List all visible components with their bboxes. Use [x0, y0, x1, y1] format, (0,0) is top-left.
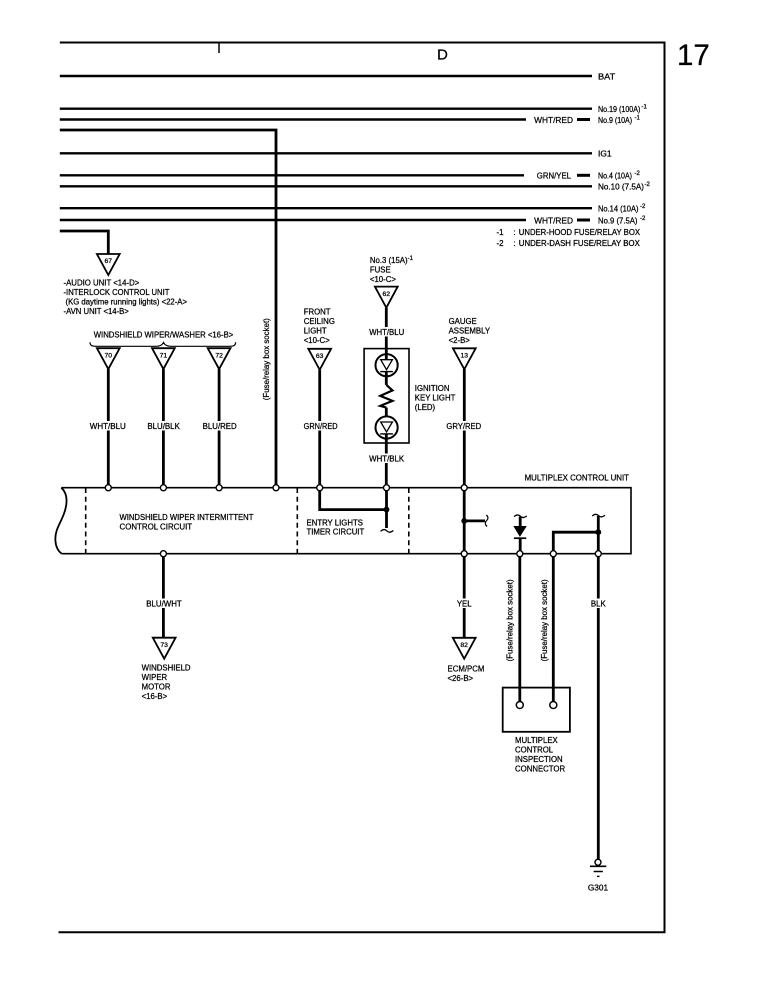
svg-text:62: 62: [383, 291, 391, 298]
svg-text:<16-B>: <16-B>: [142, 692, 168, 701]
svg-text:13: 13: [461, 353, 469, 360]
wire inspection 2 inside: [552, 688, 555, 702]
terminal socket top: [273, 485, 279, 491]
label GRY/RED: [444, 421, 484, 431]
continuation tilde diode feed: [514, 515, 527, 518]
continuation tilde BLK feed: [592, 514, 605, 517]
svg-text:CONNECTOR: CONNECTOR: [515, 765, 565, 774]
svg-text:<10-C>: <10-C>: [370, 275, 396, 284]
wire stub to continuation: [464, 520, 485, 523]
svg-text:(KG daytime running lights) <2: (KG daytime running lights) <22-A>: [66, 298, 188, 307]
svg-text:63: 63: [316, 353, 324, 360]
junction BLK elbow: [595, 529, 601, 535]
label GRN/RED: [301, 421, 340, 431]
svg-text:No.4 (10A): No.4 (10A): [598, 172, 632, 181]
svg-text:WHT/BLU: WHT/BLU: [369, 328, 404, 337]
terminal 71 top: [160, 485, 166, 491]
svg-text:No.19 (100A): No.19 (100A): [598, 105, 641, 114]
svg-text:FUSE: FUSE: [370, 265, 391, 274]
terminal wiper motor bottom: [160, 551, 166, 557]
svg-text:<26-B>: <26-B>: [448, 674, 474, 683]
diode D3: [514, 527, 526, 536]
svg-text:71: 71: [160, 352, 168, 359]
wire stub No.9 (7.5A): [577, 219, 590, 222]
connector 70: [97, 348, 120, 369]
wire fuse/relay box socket feed: [60, 130, 276, 487]
label WHT/BLU: [88, 421, 128, 431]
dashed partition 1: [85, 488, 87, 554]
wire to connector 67: [60, 231, 109, 254]
svg-text:BLU/WHT: BLU/WHT: [146, 599, 182, 608]
svg-text:ECM/PCM: ECM/PCM: [448, 665, 485, 674]
svg-text:BLU/RED: BLU/RED: [203, 422, 237, 431]
wire diode feed: [519, 517, 522, 528]
wire BLU/WHT: [162, 557, 165, 638]
svg-text:<10-C>: <10-C>: [304, 336, 330, 345]
LED D1: [376, 354, 398, 376]
wire No.10 bus: [60, 185, 592, 187]
svg-text:No.9 (7.5A): No.9 (7.5A): [598, 216, 638, 225]
svg-text:(Fuse/relay box socket): (Fuse/relay box socket): [262, 318, 271, 400]
svg-text:No.14 (10A): No.14 (10A): [598, 205, 639, 214]
svg-text:MOTOR: MOTOR: [142, 682, 171, 691]
label WHT/BLU: [366, 327, 407, 337]
svg-text:GRY/RED: GRY/RED: [446, 422, 481, 431]
svg-text:INSPECTION: INSPECTION: [515, 755, 563, 764]
wire No.19 bus: [60, 107, 592, 109]
brace over connectors 70 71 72: [90, 342, 236, 346]
svg-text:GRN/RED: GRN/RED: [304, 422, 338, 431]
svg-text:WHT/BLU: WHT/BLU: [90, 422, 126, 431]
box multiplex control inspection connector: [503, 688, 570, 732]
svg-text:GAUGE: GAUGE: [449, 317, 477, 326]
junction GRY/RED stub: [461, 518, 467, 524]
svg-text:-2: -2: [635, 171, 641, 177]
svg-text:82: 82: [460, 642, 468, 649]
svg-text:No.3 (15A)-1: No.3 (15A)-1: [370, 256, 414, 265]
label WHT/BLK: [366, 454, 407, 464]
svg-text:BLU/BLK: BLU/BLK: [147, 422, 180, 431]
svg-text:GRN/YEL: GRN/YEL: [537, 172, 572, 181]
terminal ceiling light top: [317, 485, 323, 491]
dashed partition 2: [296, 488, 298, 554]
connector 82: [453, 638, 476, 659]
svg-text:LIGHT: LIGHT: [304, 326, 327, 335]
terminal 70 top: [105, 485, 111, 491]
wire GRY/RED: [463, 369, 466, 485]
label BLU/BLK: [144, 421, 183, 431]
svg-text:CONTROL CIRCUIT: CONTROL CIRCUIT: [120, 523, 193, 532]
label BLU/WHT: [144, 599, 184, 609]
svg-text:(Fuse/relay box socket): (Fuse/relay box socket): [540, 579, 549, 661]
svg-text:WHT/BLK: WHT/BLK: [369, 455, 405, 464]
wire YEL: [463, 557, 466, 638]
svg-text:-2: -2: [640, 204, 646, 210]
svg-text:IGNITION: IGNITION: [415, 384, 450, 393]
svg-text:YEL: YEL: [457, 599, 472, 608]
wire stub No.9 (10A): [577, 118, 590, 121]
svg-text:WINDSHIELD WIPER INTERMITTENT: WINDSHIELD WIPER INTERMITTENT: [120, 513, 254, 522]
wire elbow to BLK: [553, 532, 598, 554]
svg-text:WHT/RED: WHT/RED: [534, 216, 573, 225]
wire inspection 1 inside: [518, 688, 521, 702]
svg-text::: :: [513, 239, 515, 248]
terminal inspection 2 bottom: [550, 551, 556, 557]
svg-text:BLK: BLK: [591, 599, 607, 608]
wavy left edge: [55, 488, 66, 554]
ground G301: [595, 859, 601, 865]
wire inspection 2: [552, 557, 555, 702]
label YEL: [454, 599, 474, 609]
connector 13: [453, 348, 476, 369]
wire WHT/BLU fuse to key light: [385, 308, 388, 360]
svg-text:-1: -1: [642, 105, 648, 111]
svg-text:ENTRY LIGHTS: ENTRY LIGHTS: [307, 519, 363, 528]
continuation hook: [485, 515, 488, 527]
label BLK: [588, 599, 609, 609]
wire GRY/RED through multiplex: [463, 488, 466, 554]
svg-text:No.9 (10A): No.9 (10A): [598, 116, 632, 125]
wire WHT/RED No.9 (10A) bus: [60, 118, 526, 120]
svg-text:WIPER: WIPER: [142, 673, 168, 682]
terminal inspection 1 bottom: [517, 551, 523, 557]
svg-text:WHT/RED: WHT/RED: [534, 116, 573, 125]
svg-text:FRONT: FRONT: [304, 307, 331, 316]
svg-text:-INTERLOCK CONTROL UNIT: -INTERLOCK CONTROL UNIT: [64, 288, 170, 297]
terminal BLK bottom: [595, 551, 601, 557]
svg-text:72: 72: [215, 352, 223, 359]
svg-text:67: 67: [105, 258, 113, 265]
terminal YEL bottom: [461, 551, 467, 557]
box multiplex control unit U1: [61, 488, 631, 554]
grid tick: [218, 43, 220, 53]
box ignition key light: [364, 349, 409, 443]
wire No.14 bus: [60, 207, 592, 209]
svg-text:WINDSHIELD WIPER/WASHER <16-B>: WINDSHIELD WIPER/WASHER <16-B>: [94, 331, 234, 340]
continuation tilde WHT/BLK: [381, 530, 394, 533]
wire BLK: [597, 557, 600, 860]
svg-text:BAT: BAT: [598, 72, 615, 81]
wire stub No.4: [577, 174, 590, 177]
svg-text::: :: [513, 228, 515, 237]
svg-text:UNDER-HOOD FUSE/RELAY BOX: UNDER-HOOD FUSE/RELAY BOX: [519, 228, 641, 237]
svg-text:-AUDIO UNIT <14-D>: -AUDIO UNIT <14-D>: [64, 279, 140, 288]
svg-text:UNDER-DASH FUSE/RELAY BOX: UNDER-DASH FUSE/RELAY BOX: [519, 239, 641, 248]
wire GRN/YEL No.4 bus: [60, 174, 524, 176]
wire WHT/BLK: [385, 434, 388, 485]
dashed partition 3: [408, 488, 410, 554]
svg-text:-1: -1: [497, 228, 504, 237]
connector 73: [153, 638, 176, 659]
svg-text:MULTIPLEX: MULTIPLEX: [515, 736, 559, 745]
svg-text:-1: -1: [635, 115, 641, 121]
terminal 72 top: [216, 485, 222, 491]
svg-text:(Fuse/relay box socket): (Fuse/relay box socket): [506, 579, 515, 661]
svg-text:TIMER CIRCUIT: TIMER CIRCUIT: [307, 528, 365, 537]
connector 63: [308, 349, 331, 370]
wire BAT bus: [60, 75, 592, 77]
label BLU/RED: [200, 421, 240, 431]
svg-text:73: 73: [160, 642, 168, 649]
svg-text:WINDSHIELD: WINDSHIELD: [142, 663, 191, 672]
svg-text:(LED): (LED): [415, 403, 436, 412]
svg-text:MULTIPLEX CONTROL UNIT: MULTIPLEX CONTROL UNIT: [525, 474, 630, 483]
svg-text:CONTROL: CONTROL: [515, 746, 554, 755]
wire entry lights internal: [320, 488, 387, 528]
svg-text:70: 70: [105, 352, 113, 359]
svg-text:No.10 (7.5A): No.10 (7.5A): [598, 183, 644, 192]
wire BLU/BLK from connector 71: [162, 369, 165, 485]
svg-text:CEILING: CEILING: [304, 317, 335, 326]
terminal key light top: [384, 485, 390, 491]
pin inspection 1: [516, 702, 523, 709]
svg-text:G301: G301: [588, 883, 609, 893]
terminal gauge top: [461, 485, 467, 491]
wire IG1 bus: [60, 152, 592, 154]
svg-text:ASSEMBLY: ASSEMBLY: [449, 327, 491, 336]
LED D2: [385, 408, 388, 422]
connector 71: [152, 348, 175, 369]
svg-text:-2: -2: [640, 216, 646, 222]
connector 67: [97, 254, 120, 275]
svg-text:-2: -2: [645, 182, 651, 188]
wire BLK internal: [597, 516, 600, 554]
svg-text:17: 17: [677, 39, 710, 72]
wire WHT/RED No.9 (7.5A) bus: [60, 219, 526, 221]
junction entry lights: [384, 507, 390, 513]
connector 62: [375, 287, 398, 308]
wire BLU/RED from connector 72: [218, 369, 221, 485]
svg-text:D: D: [437, 46, 448, 63]
wire GRN/RED: [318, 370, 321, 485]
svg-text:-2: -2: [497, 239, 504, 248]
wire inspection 1: [518, 557, 521, 702]
svg-text:IG1: IG1: [598, 150, 612, 159]
pin inspection 2: [550, 702, 557, 709]
svg-text:KEY LIGHT: KEY LIGHT: [415, 393, 456, 402]
svg-text:<2-B>: <2-B>: [449, 336, 471, 345]
page frame: [59, 43, 665, 933]
svg-text:-AVN UNIT <14-B>: -AVN UNIT <14-B>: [64, 307, 130, 316]
wire WHT/BLU from connector 70: [107, 369, 110, 485]
connector 72: [208, 348, 231, 369]
resistor ignition key light: [380, 385, 392, 408]
